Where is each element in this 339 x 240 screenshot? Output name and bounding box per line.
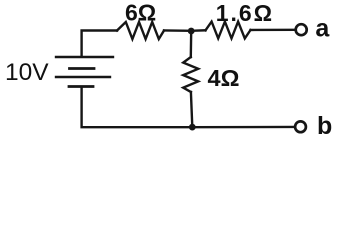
battery V 10V : lower long plate xyxy=(56,76,110,78)
junction node dot (bottom) xyxy=(189,124,196,131)
wire from 1.6Ω to terminal a xyxy=(251,29,295,32)
svg-text:4Ω: 4Ω xyxy=(208,65,240,91)
wire from 6Ω to node junction xyxy=(164,29,191,32)
battery V 10V : bottom short plate xyxy=(69,85,93,88)
resistor 4Ω (vertical) xyxy=(183,57,198,92)
wire from battery positive terminal up and right to resistor 6Ω xyxy=(82,31,117,56)
resistor 1.6Ω xyxy=(206,22,251,39)
terminal b (open circle) xyxy=(295,121,306,132)
resistor 6Ω xyxy=(117,22,164,39)
battery V 10V : top long plate xyxy=(56,56,113,58)
wire from battery negative plate down and right along bottom to junction xyxy=(82,88,193,127)
wire from junction to resistor 1.6Ω xyxy=(191,29,206,32)
battery V 10V : upper short plate xyxy=(70,67,95,70)
svg-text:a: a xyxy=(315,15,330,43)
wire from 4Ω down to bottom junction xyxy=(191,92,192,127)
svg-text:1.6Ω: 1.6Ω xyxy=(216,0,274,26)
terminal a (open circle) xyxy=(296,24,307,35)
wire from top junction down to resistor 4Ω xyxy=(190,31,193,57)
svg-text:b: b xyxy=(317,112,332,139)
svg-text:6Ω: 6Ω xyxy=(125,0,156,26)
wire from bottom junction to terminal b xyxy=(192,126,294,129)
junction node dot (top) xyxy=(188,28,195,35)
svg-text:10V: 10V xyxy=(5,59,49,86)
